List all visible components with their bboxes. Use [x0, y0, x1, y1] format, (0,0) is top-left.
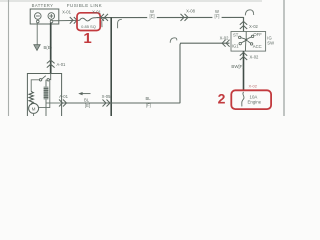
current direction arrow — [78, 92, 90, 95]
switch pivot and poles — [241, 32, 252, 52]
svg-text:X-02: X-02 — [250, 55, 260, 60]
wire ignition switch down to fuse — [243, 51, 245, 90]
starter solenoid switch — [39, 74, 50, 82]
wire pull-in coil to starter output — [46, 102, 62, 104]
svg-text:[F]: [F] — [215, 14, 220, 19]
battery positive terminal symbol — [48, 13, 55, 20]
wire solenoid contact to motor — [39, 81, 50, 108]
connector X-02 top of switch (up chevrons) — [240, 21, 247, 29]
wire down from corner into ignition switch — [243, 17, 245, 32]
svg-text:M: M — [32, 106, 36, 111]
page border left — [8, 0, 10, 116]
switch contact ST — [239, 36, 241, 38]
branch curl A — [102, 18, 106, 27]
branch curl C at top corner — [245, 10, 253, 16]
svg-text:1: 1 — [83, 30, 91, 47]
battery negative post — [37, 20, 40, 23]
connector A-01 output (right chevrons) — [59, 100, 67, 107]
svg-text:X-05: X-05 — [102, 94, 112, 99]
svg-text:X-01: X-01 — [92, 9, 102, 14]
svg-text:BL: BL — [145, 96, 151, 101]
fuse 10A element — [242, 92, 244, 106]
battery positive post — [50, 20, 53, 23]
page border right — [283, 0, 285, 116]
svg-text:[E]: [E] — [149, 14, 154, 19]
starter motor M — [29, 103, 39, 113]
battery negative terminal symbol — [35, 13, 42, 20]
svg-text:0.85 SQ: 0.85 SQ — [81, 24, 96, 29]
svg-text:X-02: X-02 — [249, 84, 258, 89]
wire from starter circuit corner to ignition switch left — [180, 43, 230, 103]
svg-text:[F]: [F] — [146, 102, 151, 107]
svg-text:Engine: Engine — [248, 100, 262, 105]
starter output wire to trunk — [62, 102, 180, 104]
wire battery positive thick feed down to starter — [50, 23, 52, 74]
highlight box 2 (red) around fuse — [231, 90, 271, 109]
svg-text:2: 2 — [218, 90, 226, 106]
connector X-05 (right chevrons) — [103, 100, 111, 107]
ground B(E) — [34, 45, 40, 51]
pull-in coil — [44, 80, 49, 116]
svg-text:ACC: ACC — [253, 44, 262, 49]
svg-text:OFF: OFF — [253, 32, 262, 37]
wire motor to box bottom — [33, 113, 35, 116]
svg-text:A-01: A-01 — [57, 62, 67, 67]
svg-text:BATTERY: BATTERY — [32, 3, 54, 8]
connector X-08 (right chevrons) — [181, 14, 189, 21]
svg-text:[E]: [E] — [85, 103, 90, 108]
svg-text:FUSIBLE LINK: FUSIBLE LINK — [67, 3, 102, 8]
wire main vertical trunk (to bottom of page) — [110, 17, 112, 116]
wire battery negative down to ground — [36, 23, 38, 45]
wire coil to motor — [30, 104, 32, 105]
ignition switch box — [231, 32, 266, 52]
svg-text:BL: BL — [84, 98, 90, 103]
svg-text:SW: SW — [267, 40, 274, 45]
svg-text:ST: ST — [233, 33, 239, 38]
highlight box 1 (red) around fusible link — [77, 13, 100, 31]
wire battery positive to fusible link — [53, 19, 80, 21]
svg-text:X-02: X-02 — [220, 36, 230, 41]
svg-text:IG1: IG1 — [232, 44, 239, 49]
wire solenoid to hold coil — [31, 80, 39, 92]
branch curl D at left corner — [170, 38, 177, 43]
svg-text:X-01: X-01 — [62, 9, 72, 14]
branch curl B — [118, 19, 122, 28]
svg-text:A-01: A-01 — [59, 94, 69, 99]
scan artifact top streak — [0, 0, 262, 2]
hold-in coil — [29, 92, 33, 104]
connector X-02 bottom of switch (up chevrons) — [240, 52, 247, 60]
svg-text:X-08: X-08 — [186, 8, 196, 13]
connector X-01 right (left chevrons) — [101, 14, 109, 21]
main feed wire top (fusible link to ignition switch corner) — [96, 16, 243, 18]
connector X-01 left (right chevrons) — [70, 17, 77, 24]
connector X-02 left of switch (left chevrons) — [222, 40, 230, 47]
switch contact OFF — [251, 35, 253, 37]
switch contact IG1 — [239, 42, 241, 44]
starter motor box — [27, 74, 61, 120]
fusible link element — [80, 18, 97, 21]
battery box — [30, 9, 59, 24]
connector A-01 (starter feed, up chevrons) — [47, 60, 55, 68]
svg-text:X-02: X-02 — [249, 24, 259, 29]
switch contact ACC — [250, 43, 252, 45]
svg-text:BW[F]: BW[F] — [231, 64, 243, 69]
